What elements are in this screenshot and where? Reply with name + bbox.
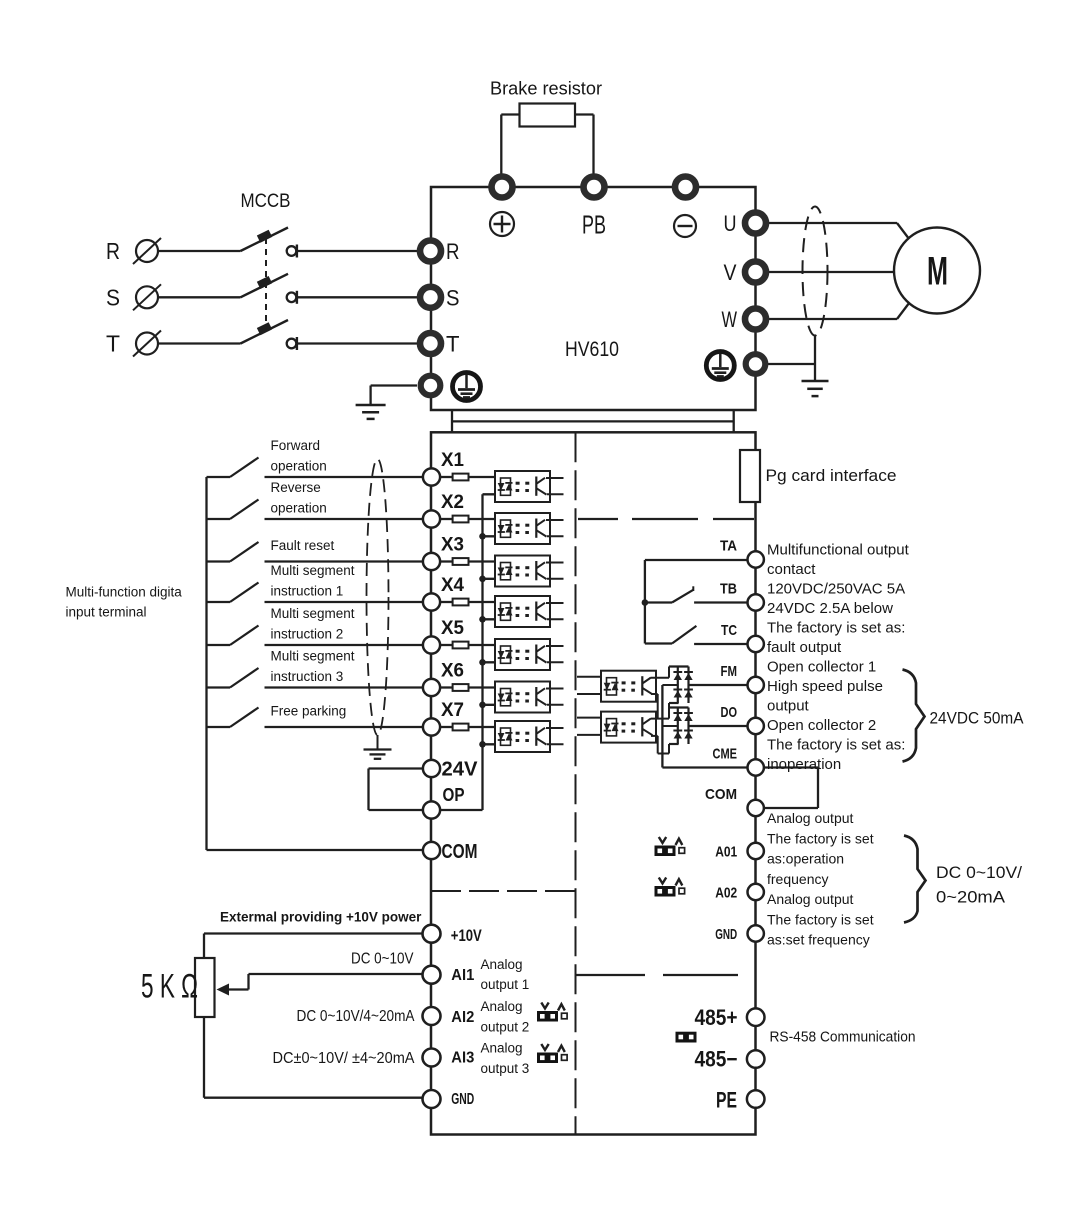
svg-text:operation: operation <box>271 458 327 473</box>
svg-text:X6: X6 <box>441 661 464 682</box>
svg-text:TA: TA <box>720 537 737 554</box>
svg-text:The factory is set as:: The factory is set as: <box>767 737 905 754</box>
svg-text:R: R <box>106 238 120 264</box>
svg-text:Multifunctional output: Multifunctional output <box>767 542 910 559</box>
svg-text:24V: 24V <box>442 759 479 781</box>
svg-text:V: V <box>724 260 737 285</box>
svg-text:COM: COM <box>442 841 478 863</box>
svg-text:5 K Ω: 5 K Ω <box>141 968 198 1006</box>
svg-text:485+: 485+ <box>695 1005 738 1030</box>
svg-text:24VDC 50mA: 24VDC 50mA <box>930 709 1025 728</box>
svg-text:output: output <box>767 698 810 715</box>
svg-text:operation: operation <box>271 500 327 515</box>
svg-text:AI1: AI1 <box>451 967 474 984</box>
svg-text:M: M <box>927 249 948 293</box>
svg-text:as:set frequency: as:set frequency <box>767 932 870 948</box>
svg-text:T: T <box>446 332 460 357</box>
svg-text:X7: X7 <box>441 700 464 721</box>
svg-text:X3: X3 <box>441 535 464 556</box>
svg-text:Reverse: Reverse <box>271 480 321 495</box>
svg-text:X4: X4 <box>441 575 464 596</box>
svg-text:A01: A01 <box>715 843 737 860</box>
svg-text:Brake resistor: Brake resistor <box>490 79 602 99</box>
svg-text:AI2: AI2 <box>451 1009 474 1026</box>
svg-text:Multi segment: Multi segment <box>271 563 355 578</box>
svg-text:Analog: Analog <box>481 1040 523 1055</box>
svg-text:Multi segment: Multi segment <box>271 606 355 621</box>
svg-text:HV610: HV610 <box>565 338 619 361</box>
svg-text:GND: GND <box>451 1091 474 1108</box>
svg-text:X1: X1 <box>441 450 464 471</box>
svg-text:Forward: Forward <box>271 438 321 453</box>
svg-text:DC 0~10V/4~20mA: DC 0~10V/4~20mA <box>297 1008 416 1025</box>
svg-text:CME: CME <box>713 745 738 762</box>
svg-text:Analog output: Analog output <box>767 891 854 907</box>
svg-text:instruction 2: instruction 2 <box>271 626 344 641</box>
svg-text:The factory is set as:: The factory is set as: <box>767 620 905 637</box>
svg-text:as:operation: as:operation <box>767 851 844 867</box>
svg-text:R: R <box>446 239 460 264</box>
svg-text:instruction 3: instruction 3 <box>271 669 344 684</box>
svg-text:TB: TB <box>720 580 737 597</box>
svg-text:24VDC 2.5A below: 24VDC 2.5A below <box>767 600 893 617</box>
svg-text:The factory is set: The factory is set <box>767 911 874 927</box>
svg-text:frequency: frequency <box>767 871 828 887</box>
svg-text:inoperation: inoperation <box>767 756 841 773</box>
svg-text:0~20mA: 0~20mA <box>936 888 1006 907</box>
svg-text:Open collector 2: Open collector 2 <box>767 717 876 734</box>
svg-text:output 3: output 3 <box>481 1061 530 1076</box>
svg-text:485−: 485− <box>695 1047 738 1072</box>
svg-text:OP: OP <box>443 785 465 805</box>
svg-text:S: S <box>446 285 460 310</box>
svg-text:contact: contact <box>767 561 816 578</box>
svg-text:Free parking: Free parking <box>271 704 347 719</box>
svg-text:Analog output: Analog output <box>767 810 854 826</box>
svg-text:Extermal providing +10V power: Extermal providing +10V power <box>220 910 422 925</box>
svg-text:W: W <box>722 307 738 332</box>
svg-text:High speed pulse: High speed pulse <box>767 678 883 695</box>
svg-text:Fault reset: Fault reset <box>271 538 335 553</box>
svg-text:DC 0~10V/: DC 0~10V/ <box>936 863 1022 882</box>
svg-text:instruction 1: instruction 1 <box>271 583 344 598</box>
svg-text:U: U <box>724 211 737 236</box>
svg-text:120VDC/250VAC 5A: 120VDC/250VAC 5A <box>767 581 905 598</box>
svg-text:T: T <box>106 331 120 357</box>
svg-text:X5: X5 <box>441 618 464 639</box>
svg-text:X2: X2 <box>441 492 464 513</box>
svg-text:DC 0~10V: DC 0~10V <box>351 951 414 968</box>
svg-text:AI3: AI3 <box>451 1050 474 1067</box>
svg-text:A02: A02 <box>715 884 737 901</box>
svg-text:Analog: Analog <box>481 957 523 972</box>
svg-text:RS-458 Communication: RS-458 Communication <box>770 1028 916 1045</box>
svg-text:MCCB: MCCB <box>241 191 291 212</box>
svg-text:output 2: output 2 <box>481 1019 530 1034</box>
svg-text:output 1: output 1 <box>481 977 530 992</box>
svg-text:Multi-function digita: Multi-function digita <box>66 584 183 599</box>
svg-text:+10V: +10V <box>451 926 483 945</box>
svg-text:Multi segment: Multi segment <box>271 649 355 664</box>
svg-text:The factory is set: The factory is set <box>767 830 874 846</box>
svg-text:S: S <box>106 284 120 310</box>
svg-text:GND: GND <box>715 926 737 943</box>
svg-text:input terminal: input terminal <box>66 605 147 620</box>
svg-text:TC: TC <box>721 622 737 639</box>
svg-text:PE: PE <box>716 1088 737 1113</box>
svg-text:FM: FM <box>721 663 738 680</box>
svg-text:PB: PB <box>582 210 606 240</box>
svg-text:Analog: Analog <box>481 999 523 1014</box>
svg-text:DO: DO <box>721 704 738 721</box>
svg-text:fault output: fault output <box>767 639 842 656</box>
svg-text:DC±0~10V/ ±4~20mA: DC±0~10V/ ±4~20mA <box>273 1050 416 1067</box>
svg-text:Pg card interface: Pg card interface <box>766 466 897 485</box>
svg-text:Open collector 1: Open collector 1 <box>767 659 876 676</box>
svg-text:COM: COM <box>705 786 737 803</box>
